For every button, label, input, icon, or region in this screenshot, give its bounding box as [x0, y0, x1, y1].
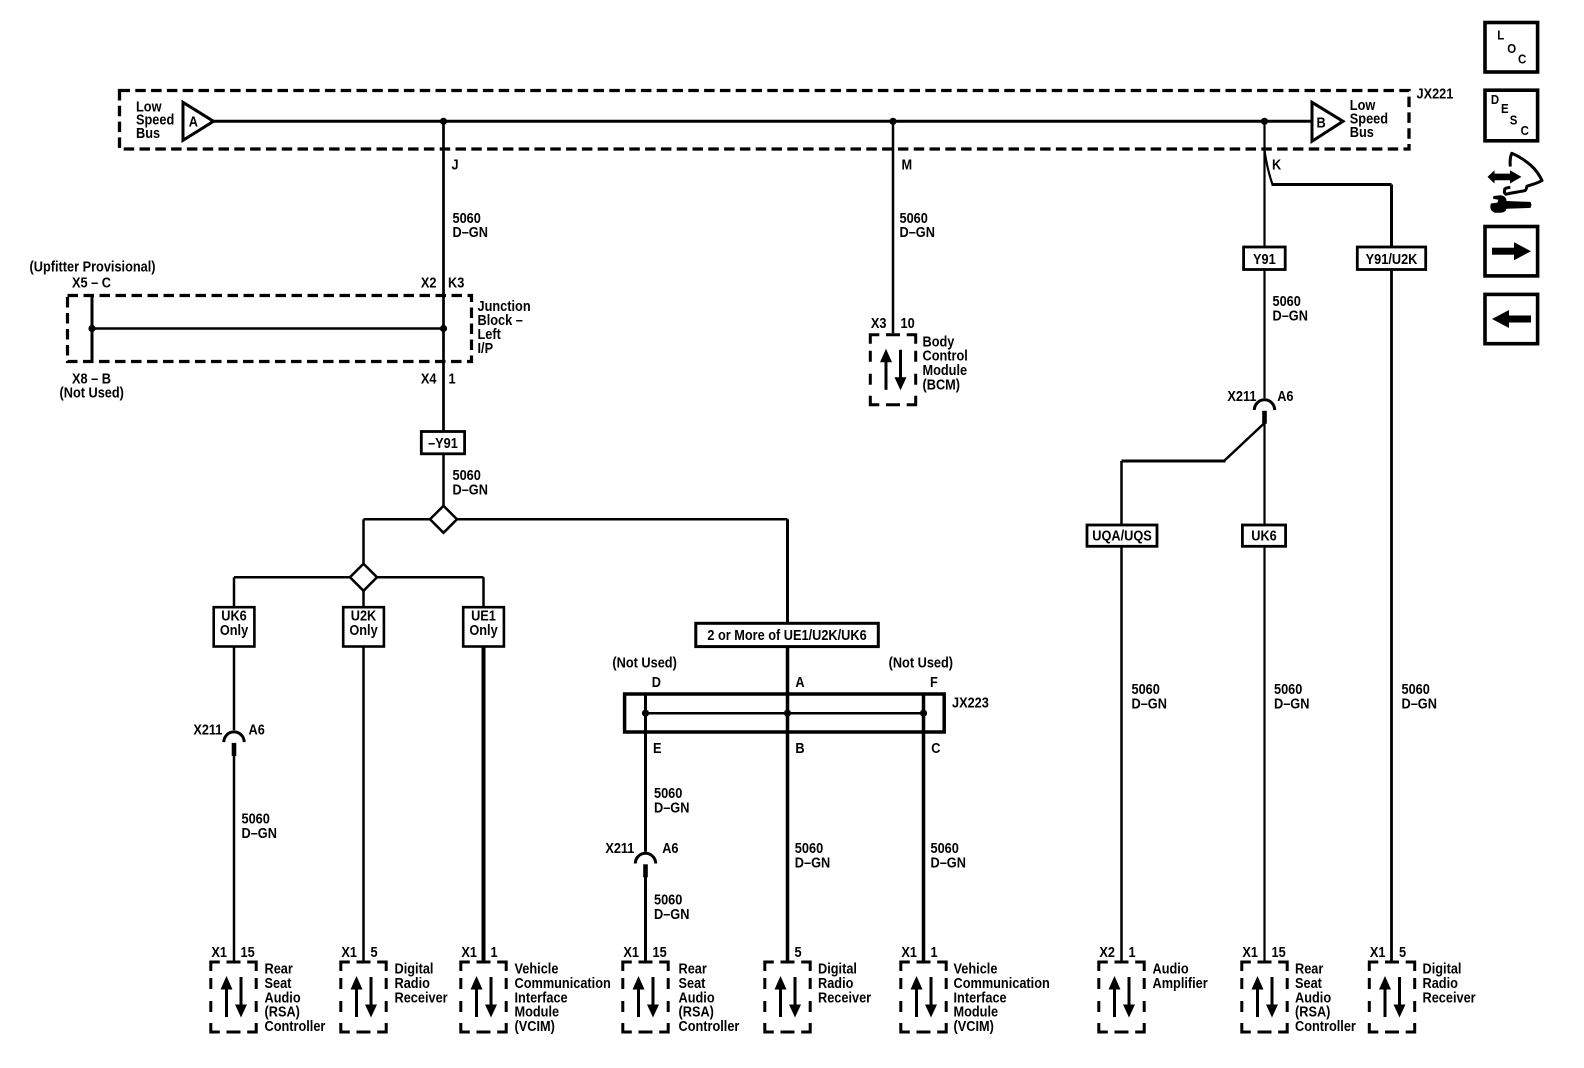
- option label UQA/UQS: [1087, 525, 1157, 546]
- svg-text:(Not Used): (Not Used): [60, 385, 124, 401]
- icon LOC button: [1485, 23, 1538, 73]
- svg-text:1: 1: [449, 371, 456, 387]
- svg-text:15: 15: [653, 944, 668, 960]
- option box 2 or More of UE1/U2K/UK6: [696, 623, 879, 646]
- svg-text:X211: X211: [193, 722, 222, 738]
- svg-text:JX223: JX223: [952, 695, 989, 711]
- component Rear Seat Audio (RSA) Controller #3: [1242, 944, 1357, 1034]
- wire E drop upper: [644, 713, 647, 852]
- inline connector X211 A6 (left): [224, 732, 244, 756]
- svg-text:X1: X1: [1370, 944, 1386, 960]
- component Digital Radio Receiver #1: [341, 944, 448, 1032]
- svg-text:D–GN: D–GN: [1132, 696, 1167, 712]
- svg-text:D–GN: D–GN: [900, 224, 935, 240]
- svg-text:A6: A6: [1277, 388, 1294, 404]
- svg-text:D–GN: D–GN: [1402, 696, 1437, 712]
- component Body Control Module (BCM) connector: [870, 335, 915, 405]
- wire C drop: [922, 713, 926, 962]
- svg-text:O: O: [1507, 41, 1516, 56]
- component Vehicle Communication Interface Module #2: [901, 944, 1050, 1034]
- wire S1 to S2 vertical: [362, 519, 365, 564]
- svg-text:Receiver: Receiver: [1423, 990, 1477, 1006]
- svg-text:A: A: [189, 114, 198, 130]
- svg-text:X1: X1: [461, 944, 477, 960]
- svg-text:UK6: UK6: [1251, 528, 1277, 544]
- svg-text:15: 15: [241, 944, 256, 960]
- wire A drop into JX223: [786, 647, 790, 714]
- svg-text:J: J: [452, 157, 459, 173]
- wire Y91 to X211: [1263, 270, 1265, 399]
- option box UK6 Only: [214, 607, 255, 646]
- wire K drop: [1263, 121, 1265, 247]
- svg-text:JX221: JX221: [1417, 86, 1454, 102]
- svg-text:5: 5: [371, 944, 378, 960]
- svg-text:M: M: [902, 157, 913, 173]
- svg-text:X4: X4: [421, 371, 437, 387]
- wire J drop 5060 D-GN: [442, 121, 445, 431]
- wire UE1 drop: [482, 647, 486, 963]
- svg-text:D–GN: D–GN: [453, 224, 488, 240]
- svg-text:X3: X3: [871, 315, 887, 331]
- svg-text:X1: X1: [341, 944, 357, 960]
- svg-text:L: L: [1497, 28, 1504, 43]
- svg-text:Receiver: Receiver: [395, 990, 449, 1006]
- svg-text:B: B: [1317, 115, 1326, 131]
- wire diagonal to UQA branch: [1224, 423, 1265, 461]
- svg-text:Controller: Controller: [1295, 1018, 1357, 1034]
- wire F stub: [922, 694, 926, 713]
- splice diamond S2: [350, 564, 377, 591]
- svg-text:D–GN: D–GN: [1274, 696, 1309, 712]
- option label Y91/U2K: [1357, 247, 1425, 270]
- inline connector X211 A6 (middle): [635, 853, 655, 877]
- junction block dashed box: [68, 296, 472, 362]
- svg-text:X1: X1: [1242, 944, 1258, 960]
- svg-text:15: 15: [1272, 944, 1287, 960]
- svg-text:Bus: Bus: [1350, 124, 1374, 140]
- splice diamond S1: [430, 506, 457, 533]
- svg-text:10: 10: [901, 315, 916, 331]
- wire UQA drop upper: [1120, 461, 1123, 525]
- connector JX223 box: [625, 694, 945, 732]
- svg-text:(Not Used): (Not Used): [889, 655, 953, 671]
- svg-text:K: K: [1272, 157, 1281, 173]
- wire UQA drop lower: [1120, 546, 1123, 962]
- svg-text:X2: X2: [421, 275, 437, 291]
- svg-text:Y91: Y91: [1253, 251, 1276, 267]
- svg-text:(BCM): (BCM): [923, 377, 961, 393]
- option label -Y91: [421, 432, 464, 454]
- icon DESC button: [1485, 90, 1538, 141]
- component Rear Seat Audio (RSA) Controller #1: [211, 944, 326, 1034]
- wire UK6 right drop lower: [1263, 546, 1265, 962]
- icon back arrow button: [1485, 294, 1538, 343]
- wire K branch jog: [1265, 151, 1273, 185]
- svg-text:D–GN: D–GN: [453, 482, 488, 498]
- svg-text:S: S: [1510, 113, 1518, 128]
- svg-text:F: F: [930, 674, 938, 690]
- svg-text:D–GN: D–GN: [931, 855, 966, 871]
- connector JX221 dashed box: [120, 91, 1410, 150]
- wire junction block internal: [92, 327, 444, 330]
- wire Y91/U2K drop lower: [1390, 270, 1393, 963]
- svg-text:C: C: [931, 740, 940, 756]
- component Digital Radio Receiver #3: [1369, 944, 1476, 1032]
- wire S1 right branch: [457, 518, 788, 521]
- wire K branch horizontal: [1272, 183, 1392, 186]
- junction dot A/B: [784, 710, 791, 717]
- svg-text:Receiver: Receiver: [818, 990, 872, 1006]
- svg-text:UQA/UQS: UQA/UQS: [1092, 528, 1151, 544]
- wire M drop 5060 D-GN: [892, 121, 895, 333]
- svg-text:5: 5: [795, 944, 802, 960]
- svg-text:X5 – C: X5 – C: [72, 275, 111, 291]
- component Vehicle Communication Interface Module #1: [461, 944, 611, 1034]
- wire UK6 drop upper: [233, 647, 236, 731]
- option box UE1 Only: [463, 607, 504, 646]
- svg-text:E: E: [1501, 101, 1509, 116]
- wire JX223 internal bus: [646, 712, 924, 715]
- wire U2K drop: [362, 647, 365, 963]
- option box U2K Only: [343, 607, 384, 646]
- inline connector X211 A6 (right): [1254, 400, 1274, 424]
- junction dot node J: [440, 118, 447, 125]
- junction dot at K3 wire: [440, 325, 447, 332]
- svg-text:5: 5: [1399, 944, 1406, 960]
- junction dot upfitter: [88, 325, 95, 332]
- svg-text:D–GN: D–GN: [795, 855, 830, 871]
- svg-text:D–GN: D–GN: [654, 800, 689, 816]
- svg-text:Only: Only: [220, 622, 249, 638]
- svg-text:X1: X1: [211, 944, 227, 960]
- svg-text:A: A: [795, 674, 804, 690]
- wire UQA branch horizontal: [1122, 460, 1226, 463]
- svg-text:D: D: [1491, 92, 1499, 107]
- junction dot F/C: [920, 710, 927, 717]
- svg-text:1: 1: [1129, 944, 1136, 960]
- svg-text:Only: Only: [469, 622, 498, 638]
- wire to 2-or-more box: [786, 519, 789, 623]
- svg-text:E: E: [653, 740, 662, 756]
- svg-text:C: C: [1518, 52, 1526, 67]
- svg-text:(VCIM): (VCIM): [954, 1018, 994, 1034]
- svg-text:B: B: [795, 740, 804, 756]
- wire S1 left branch: [364, 518, 431, 521]
- wire B drop: [786, 713, 790, 962]
- svg-text:1: 1: [491, 944, 498, 960]
- wire to UK6 Only: [233, 577, 236, 607]
- component Digital Radio Receiver #2: [765, 944, 872, 1032]
- svg-text:–Y91: –Y91: [428, 435, 458, 451]
- svg-text:Amplifier: Amplifier: [1153, 975, 1209, 991]
- svg-text:I/P: I/P: [478, 340, 494, 356]
- svg-text:A6: A6: [249, 722, 266, 738]
- svg-text:Y91/U2K: Y91/U2K: [1366, 251, 1418, 267]
- svg-text:Bus: Bus: [136, 125, 160, 141]
- wire S2 left branch: [234, 576, 350, 579]
- option label Y91: [1244, 247, 1286, 270]
- wire S2 down: [362, 591, 365, 607]
- svg-text:1: 1: [931, 944, 938, 960]
- svg-text:Only: Only: [349, 622, 378, 638]
- wire Y91/U2K drop upper: [1390, 185, 1393, 248]
- bus driver triangle B: [1312, 102, 1343, 141]
- wire low speed bus: [214, 120, 1313, 123]
- svg-text:Controller: Controller: [679, 1018, 741, 1034]
- wire -Y91 to splice: [442, 454, 445, 507]
- wire to UE1 Only: [482, 577, 485, 607]
- svg-text:X2: X2: [1099, 944, 1115, 960]
- svg-text:X211: X211: [605, 840, 634, 856]
- wire S2 right branch: [377, 576, 484, 579]
- svg-text:(Upfitter Provisional): (Upfitter Provisional): [30, 259, 156, 275]
- option label UK6: [1242, 525, 1285, 546]
- junction dot node M: [889, 118, 896, 125]
- component Rear Seat Audio (RSA) Controller #2: [623, 944, 740, 1034]
- svg-text:X1: X1: [901, 944, 917, 960]
- wire UK6 right drop upper: [1263, 422, 1265, 525]
- svg-text:(Not Used): (Not Used): [612, 655, 676, 671]
- svg-text:Controller: Controller: [265, 1018, 327, 1034]
- svg-text:(VCIM): (VCIM): [515, 1018, 555, 1034]
- junction dot node K: [1261, 118, 1268, 125]
- wire E drop lower: [644, 877, 647, 963]
- svg-text:K3: K3: [448, 275, 465, 291]
- wire upfitter stub vertical: [91, 297, 94, 360]
- svg-text:X211: X211: [1227, 388, 1256, 404]
- svg-text:C: C: [1521, 123, 1529, 138]
- wire UK6 drop lower 5060 D-GN: [233, 755, 236, 962]
- svg-text:2 or More of UE1/U2K/UK6: 2 or More of UE1/U2K/UK6: [707, 627, 867, 643]
- svg-text:D–GN: D–GN: [242, 825, 277, 841]
- svg-text:X1: X1: [623, 944, 639, 960]
- junction dot D/E: [642, 710, 649, 717]
- svg-text:D: D: [652, 674, 661, 690]
- icon forward arrow button: [1485, 227, 1538, 276]
- bus driver triangle A: [183, 102, 214, 140]
- icon wiring repair (double arrow + wrench): [1488, 153, 1543, 213]
- wire D stub: [644, 694, 647, 713]
- svg-text:D–GN: D–GN: [654, 906, 689, 922]
- component Audio Amplifier: [1099, 944, 1209, 1032]
- svg-text:D–GN: D–GN: [1273, 308, 1308, 324]
- svg-text:A6: A6: [662, 840, 679, 856]
